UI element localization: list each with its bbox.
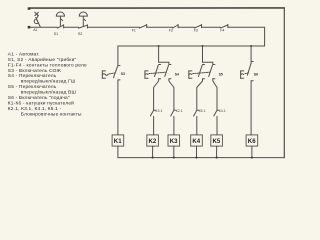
breaker A1 <box>34 12 40 27</box>
terminal square L1 <box>28 7 31 10</box>
wire: S5 pole a to K4 column <box>197 79 203 110</box>
pushbutton S1 <box>56 12 64 28</box>
wire: S1 to S2 <box>64 26 79 28</box>
legend text block <box>8 51 87 117</box>
node K5 bottom <box>216 157 218 159</box>
bottom return wire <box>118 157 284 159</box>
node S4 feed <box>158 45 160 47</box>
svg-text:вперед/выкл/назад ВШ: вперед/выкл/назад ВШ <box>21 90 76 96</box>
wire: F3 to F4 <box>202 26 221 28</box>
contact K3.1 <box>150 110 155 116</box>
node S6 feed <box>250 45 252 47</box>
node K4 bottom <box>195 157 197 159</box>
switch S3 <box>102 66 120 80</box>
switch S4 pole a <box>155 65 161 79</box>
terminal square L2 <box>28 26 31 29</box>
wire: F4 to right corner and feeder <box>118 27 265 46</box>
svg-text:А1: А1 <box>33 28 37 32</box>
right bus wire <box>283 8 285 158</box>
wire: S6 to K6 <box>250 81 252 135</box>
svg-text:вперед/выкл/назад ГШ: вперед/выкл/назад ГШ <box>21 79 76 85</box>
wire: S4 pole b to K3 column <box>169 79 174 110</box>
svg-text:F3: F3 <box>194 29 198 33</box>
svg-text:А1 - Автомат.: А1 - Автомат. <box>8 51 40 57</box>
wire: K4 to bottom <box>196 146 198 158</box>
wire: F1 to F2 <box>147 26 172 28</box>
wire: K3 to bottom <box>173 146 175 158</box>
node K6 bottom <box>251 157 253 159</box>
switch S6 <box>241 62 254 81</box>
wire: S2 to F1 <box>88 26 140 28</box>
node K3 bottom <box>173 157 175 159</box>
svg-text:K5: K5 <box>213 138 221 145</box>
svg-text:К3.1: К3.1 <box>155 109 162 113</box>
switch S4 pole b <box>165 62 171 78</box>
contact K5.1 <box>194 110 199 116</box>
svg-text:F1: F1 <box>132 29 136 33</box>
svg-text:F1-F4 - контакты теплового рел: F1-F4 - контакты теплового реле <box>8 62 87 68</box>
svg-text:S3 - Включатель СОЖ: S3 - Включатель СОЖ <box>8 68 62 74</box>
svg-text:К1-К6 - катушки пускателей: К1-К6 - катушки пускателей <box>8 100 74 107</box>
coil K2 <box>147 135 159 146</box>
wire: feeder drop to S3 <box>117 46 119 66</box>
svg-text:K6: K6 <box>248 138 256 145</box>
svg-text:К5.1: К5.1 <box>199 109 206 113</box>
svg-text:F4: F4 <box>220 29 224 33</box>
svg-text:K2: K2 <box>149 138 157 145</box>
wire: K5 to bottom <box>216 146 218 158</box>
wire: bus A1 to S1 <box>30 26 57 28</box>
wire: S5 pole b to K5 column <box>213 79 217 110</box>
contact F1 <box>140 24 147 28</box>
svg-text:S5 - Переключатель: S5 - Переключатель <box>8 84 57 90</box>
wire: S5 feed drop and bar <box>203 46 213 62</box>
svg-text:Блокировочные контакты: Блокировочные контакты <box>21 111 82 117</box>
coil K1 <box>112 135 124 146</box>
svg-text:К2.1, К3.1, К4.1, К5.1 -: К2.1, К3.1, К4.1, К5.1 - <box>8 106 62 112</box>
contact F4 <box>221 24 228 28</box>
wire: K6 to bottom <box>251 146 253 158</box>
svg-text:S5: S5 <box>219 73 223 77</box>
wire: K2 to bottom <box>152 146 154 158</box>
svg-text:S1: S1 <box>54 32 58 36</box>
wire: K3.1 to K2 <box>153 116 155 134</box>
wire: F2 to F3 <box>179 26 195 28</box>
wire: S6 feed drop <box>250 46 252 62</box>
wire: S4 feed drop and bar <box>159 46 169 62</box>
svg-text:S1, S2 - Аварийные "грибки": S1, S2 - Аварийные "грибки" <box>8 56 77 63</box>
coil K4 <box>191 135 203 146</box>
svg-text:F2: F2 <box>169 29 173 33</box>
switch S5 pole b <box>209 62 215 78</box>
coil K5 <box>211 135 223 146</box>
svg-text:K1: K1 <box>114 138 122 145</box>
wire: S4 pole a to K2 column <box>154 79 159 110</box>
svg-text:K3: K3 <box>170 138 178 145</box>
coil K3 <box>168 135 180 146</box>
contact K2.1 <box>171 110 176 116</box>
wire: K5.1 to K4 <box>196 116 198 134</box>
wire: K4.1 to K5 <box>216 116 218 134</box>
svg-text:К4.1: К4.1 <box>219 109 226 113</box>
switch S4 actuator <box>145 71 166 78</box>
contact F2 <box>173 24 179 28</box>
svg-text:S6 - Включатель "подача": S6 - Включатель "подача" <box>8 95 70 101</box>
wire: K1 to bottom <box>117 146 119 158</box>
svg-text:S3: S3 <box>121 72 125 76</box>
top bus wire <box>30 7 284 9</box>
svg-text:S4 - Переключатель: S4 - Переключатель <box>8 73 57 79</box>
contact F3 <box>195 24 202 28</box>
switch S5 pole a <box>198 65 204 79</box>
svg-text:S2: S2 <box>78 32 82 36</box>
contact K4.1 <box>214 110 219 116</box>
wire: S3 to K1 <box>117 80 119 135</box>
pushbutton S2 <box>79 12 88 28</box>
svg-text:К2.1: К2.1 <box>176 109 183 113</box>
svg-text:K4: K4 <box>192 138 200 145</box>
node K2 bottom <box>152 157 154 159</box>
wire: K2.1 to K3 <box>173 116 175 134</box>
switch S5 actuator <box>189 71 210 78</box>
coil K6 <box>246 135 258 146</box>
svg-text:S6: S6 <box>254 72 258 76</box>
node S5 feed <box>201 45 203 47</box>
svg-text:S4: S4 <box>175 73 179 77</box>
